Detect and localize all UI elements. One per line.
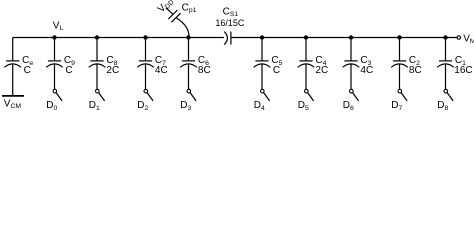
wire: Cp1 to VDD <box>166 8 173 14</box>
svg-text:D2: D2 <box>137 100 148 111</box>
wire: capacitor C6 to switch D3 <box>188 64 190 89</box>
wire: capacitor C8 to switch D1 <box>96 64 98 89</box>
svg-text:D1: D1 <box>89 100 100 111</box>
svg-text:D4: D4 <box>254 100 265 111</box>
svg-text:2C: 2C <box>106 65 119 76</box>
capacitor C5 value C <box>254 61 271 67</box>
capacitor CS1 16/15C (series bridge) <box>224 32 231 45</box>
junction dot on top rail, branch C7 <box>143 35 147 39</box>
wire: top rail to capacitor C3 <box>350 38 352 62</box>
svg-text:D6: D6 <box>343 100 354 111</box>
switch to D3 <box>187 89 196 101</box>
terminal VM (open circle) <box>457 36 460 39</box>
svg-text:C: C <box>24 65 31 76</box>
wire: capacitor C9 to switch D0 <box>54 64 56 89</box>
wire: capacitor C5 to switch D4 <box>261 64 263 89</box>
svg-text:D0: D0 <box>46 100 57 111</box>
switch to D4 <box>261 89 270 101</box>
wire: top rail to capacitor C1 <box>445 38 447 62</box>
svg-text:C: C <box>65 65 72 76</box>
wire: top rail to capacitor C8 <box>96 38 98 62</box>
svg-text:2C: 2C <box>315 65 328 76</box>
svg-text:D7: D7 <box>391 100 402 111</box>
junction dot on top rail, branch C9 <box>52 35 56 39</box>
wire: capacitor C3 to switch D6 <box>350 64 352 89</box>
junction dot on top rail, branch C6 <box>186 35 190 39</box>
wire: capacitor C1 to switch D8 <box>445 64 447 89</box>
junction dot on top rail, branch C4 <box>304 35 308 39</box>
svg-text:D8: D8 <box>437 100 448 111</box>
svg-text:Cp1: Cp1 <box>182 3 197 15</box>
switch to D0 <box>53 89 62 101</box>
switch to D6 <box>350 89 359 101</box>
capacitor C4 value 2C <box>298 61 315 67</box>
switch to D1 <box>96 89 105 101</box>
svg-text:8C: 8C <box>198 65 211 76</box>
wire: top rail to capacitor C4 <box>305 38 307 62</box>
junction dot on top rail, branch C5 <box>260 35 264 39</box>
wire: capacitor Ce to VCM terminal <box>12 64 14 95</box>
terminal VCM bar <box>2 95 24 97</box>
capacitor C3 value 4C <box>343 61 360 67</box>
svg-text:VDD: VDD <box>156 0 176 15</box>
wire: top rail to capacitor Ce <box>12 38 14 62</box>
capacitor C9 value C <box>46 61 63 67</box>
switch to D7 <box>398 89 407 101</box>
junction dot on top rail, branch C2 <box>397 35 401 39</box>
svg-text:16/15C: 16/15C <box>215 18 245 28</box>
capacitor Cp1 (diagonal plates) <box>168 10 180 22</box>
capacitor C2 value 8C <box>391 61 408 67</box>
capacitor Ce value C <box>4 61 21 67</box>
wire: capacitor C2 to switch D7 <box>399 64 401 89</box>
svg-text:8C: 8C <box>409 65 422 76</box>
capacitor C6 value 8C <box>180 61 197 67</box>
wire: top rail to capacitor C2 <box>399 38 401 62</box>
capacitor C7 value 4C <box>137 61 154 67</box>
svg-text:D5: D5 <box>298 100 309 111</box>
svg-text:VL: VL <box>53 21 64 33</box>
svg-text:4C: 4C <box>155 65 168 76</box>
wire: curved lead from C6 node toward Cp1 <box>176 18 189 37</box>
switch to D2 <box>144 89 153 101</box>
svg-text:D3: D3 <box>180 100 191 111</box>
wire: right top rail VM <box>231 37 457 39</box>
wire: top rail to capacitor C6 <box>188 38 190 62</box>
junction dot on top rail, branch C3 <box>349 35 353 39</box>
svg-text:C: C <box>273 65 280 76</box>
svg-text:16C: 16C <box>454 65 472 76</box>
junction dot on top rail, branch C1 <box>443 35 447 39</box>
svg-text:VM: VM <box>463 34 474 46</box>
wire: left top rail VL <box>13 37 224 39</box>
wire: capacitor C4 to switch D5 <box>305 64 307 89</box>
capacitor C8 value 2C <box>89 61 106 67</box>
switch to D5 <box>305 89 314 101</box>
wire: top rail to capacitor C9 <box>54 38 56 62</box>
svg-text:4C: 4C <box>360 65 373 76</box>
wire: top rail to capacitor C5 <box>261 38 263 62</box>
svg-text:VCM: VCM <box>4 99 22 111</box>
capacitor C1 value 16C <box>437 61 454 67</box>
junction dot on top rail, branch C8 <box>95 35 99 39</box>
wire: top rail to capacitor C7 <box>145 38 147 62</box>
wire: capacitor C7 to switch D2 <box>145 64 147 89</box>
switch to D8 <box>444 89 453 101</box>
svg-text:CS1: CS1 <box>223 7 239 19</box>
